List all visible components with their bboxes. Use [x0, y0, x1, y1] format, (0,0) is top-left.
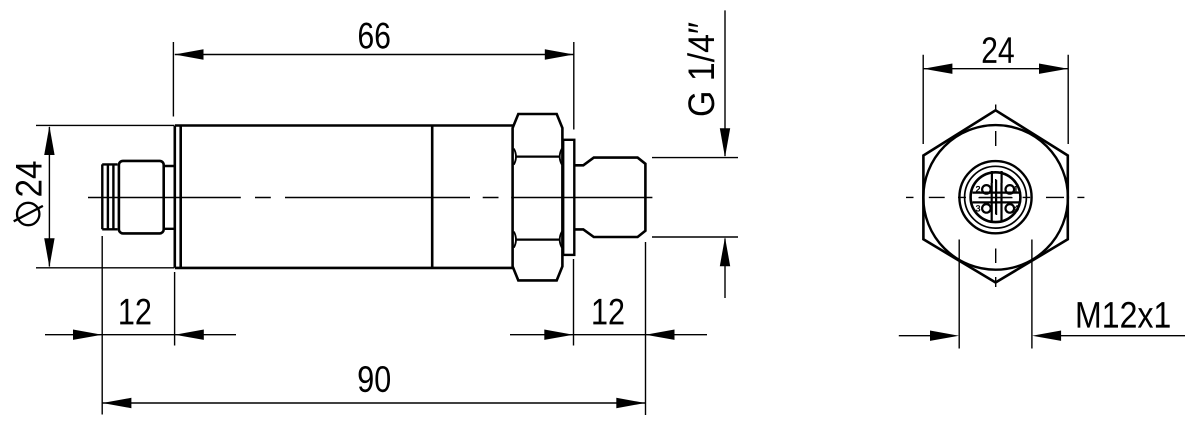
- dim 12 left arrows: [73, 330, 102, 340]
- dim 12 left line: [45, 334, 236, 336]
- dim 12 left extension lines: [102, 236, 174, 415]
- M12 connector outer circle: [959, 161, 1031, 233]
- pin 3: [982, 204, 991, 213]
- dim M12x1 leader lines: [899, 335, 1185, 337]
- hex front view outline: [923, 110, 1067, 282]
- right view vertical centerline: [995, 105, 997, 292]
- dim text 90: [359, 366, 390, 392]
- crosshair: [979, 180, 1013, 215]
- dim M12x1 extension lines: [959, 240, 1032, 349]
- dim 12 right extension lines: [574, 242, 646, 415]
- M12 connector ring circle: [965, 166, 1027, 228]
- dim 90 line: [102, 402, 645, 404]
- diameter symbol circle: [17, 203, 39, 225]
- connector coupling ring: [102, 164, 117, 229]
- pin label 2: [976, 186, 980, 192]
- diameter symbol slash: [14, 206, 43, 221]
- cross keyway horizontal bar: [973, 193, 1020, 203]
- dim d24 extension lines: [36, 125, 174, 267]
- dim text G1/4: [687, 23, 714, 116]
- dim G1/4 extension lines: [652, 158, 738, 237]
- dim G1/4 arrows: [720, 128, 730, 157]
- cross keyway vertical bar: [992, 183, 1002, 222]
- dim text 66: [359, 23, 390, 49]
- dim 12 right arrows: [544, 330, 573, 340]
- hex nut side view: [513, 114, 563, 280]
- pin label 1: [1014, 186, 1018, 192]
- dim text 24: [983, 37, 1014, 63]
- dim 24 line: [923, 68, 1068, 70]
- dim 66 extension lines: [173, 42, 573, 130]
- threaded port G1/4: [574, 158, 645, 237]
- pin 2: [982, 185, 991, 194]
- dim d24 arrows: [44, 126, 54, 155]
- connector barrel: [119, 161, 164, 234]
- pin 1: [1006, 185, 1015, 194]
- pin 4: [1006, 204, 1015, 213]
- dim text d24: [16, 162, 42, 196]
- dim 12 right line: [510, 334, 707, 336]
- sensor body cylinder: [175, 126, 513, 268]
- right view horizontal centerline: [906, 196, 1085, 198]
- dim text 12 left: [120, 299, 150, 325]
- dim 24 extension lines: [923, 55, 1068, 144]
- dim 24 arrows: [923, 64, 952, 74]
- dim 66 line: [175, 54, 574, 56]
- sealing washer: [563, 140, 574, 255]
- dim text M12x1: [1078, 302, 1170, 328]
- M12 connector insert circle: [971, 172, 1021, 222]
- hex inscribed circle: [923, 125, 1068, 270]
- dim text 12 right: [593, 299, 623, 325]
- pin label 4: [1014, 205, 1019, 211]
- hex flat lines: [517, 157, 560, 240]
- dim d24 line: [48, 127, 50, 267]
- hex corner arcs: [514, 149, 562, 248]
- dim 90 arrows: [102, 398, 131, 408]
- dim G1/4 leader lines: [724, 10, 726, 298]
- centerline main axis left view: [88, 197, 652, 199]
- key slot: [992, 171, 1002, 183]
- dim 66 arrows: [175, 49, 204, 59]
- dim M12x1 arrows: [930, 331, 959, 341]
- pin label 3: [976, 205, 981, 212]
- connector neck step: [164, 166, 175, 229]
